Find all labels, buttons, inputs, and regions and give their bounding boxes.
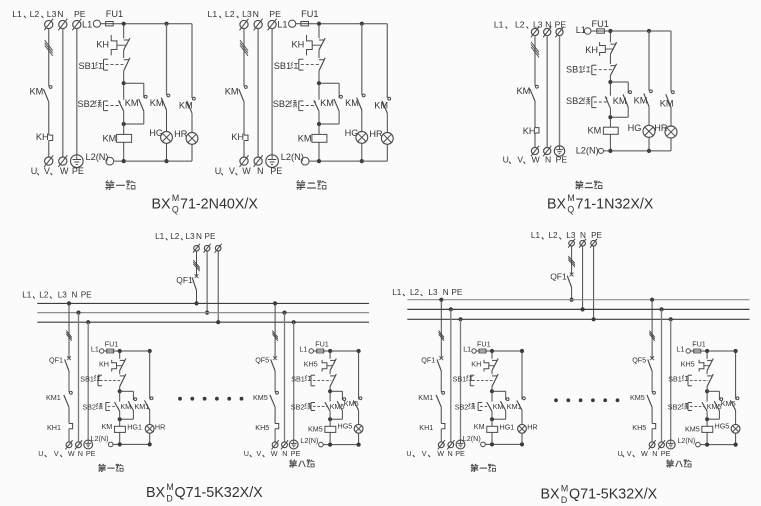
terminal L1L2L3 circuit 3 diagram BXQ71-1N32X/X [531,27,539,38]
svg-text:L1: L1 [155,232,165,241]
terminal UVW circuit 2 diagram BXQ71-2N40X/X [240,155,249,167]
svg-text:L1: L1 [531,231,541,240]
wire 3-phase circuit 3 diagram BXQ71-1N32X/X [531,36,539,86]
wire PE circuit 1 diagram BXQ71-2N40X/X [76,29,78,155]
wire control bottom circuit 1 diagram BXQ71-2N40X/X [114,159,192,163]
thermal relay element KH5 branch 8 bottom-right [632,423,655,432]
indicator lamp HG1 branch 1 bottom-right [500,410,538,444]
svg-text:L2(N): L2(N) [91,434,109,443]
contactor coil KM1 branch 1 bottom-left [102,419,126,444]
wire self-hold top branch 8 bottom-left [330,391,342,400]
wire N circuit 2 diagram BXQ71-2N40X/X [257,29,259,157]
wire branch 8 bottom-right KM to KH [651,407,653,423]
pushbutton SB2 green NO circuit 1 diagram BXQ71-2N40X/X [78,83,124,124]
svg-text:L2(N): L2(N) [677,436,695,445]
svg-text:BX: BX [146,485,166,501]
wire self-hold bottom branch 8 bottom-left [328,411,342,422]
wire 3-phase circuit 2 diagram BXQ71-2N40X/X [240,29,248,87]
svg-text:FU1: FU1 [692,340,706,349]
svg-text:HG5: HG5 [338,422,353,431]
svg-text:Q: Q [567,205,574,215]
terminal PE circuit 1 diagram BXQ71-2N40X/X [72,19,81,31]
thermal relay NC contact KH branch 1 bottom-left [99,351,126,371]
node labels L1 L2 L3 N PE bus left bottom-left diagram [22,290,92,299]
indicator lamp HR circuit 3 diagram BXQ71-1N32X/X [654,108,677,151]
wire control top branch 8 bottom-right [700,349,737,399]
label di-yi-lu 第一路 branch 1 bottom-right [471,464,496,472]
wire N drop branch 8 bottom-right [659,307,663,442]
wire circuit 1 diagram BXQ71-2N40X/X KH to UVW terminal [48,141,50,158]
wire control top circuit 3 diagram BXQ71-1N32X/X [604,29,671,33]
svg-text:L2(N): L2(N) [281,152,304,162]
svg-text:M: M [561,483,568,493]
svg-text:PE: PE [72,166,84,176]
svg-text:V: V [54,449,59,458]
svg-text:W: W [271,449,278,458]
svg-text:SB2: SB2 [273,99,290,109]
wire circuit 1 diagram BXQ71-2N40X/X KM to KH [48,102,50,135]
wire 3-phase feeder drop bottom-left diagram [193,251,200,276]
wire branch 8 bottom-left SB1 to junction [328,387,332,394]
svg-text:SB1: SB1 [80,374,94,383]
label model BXQ71-2N40X/X [152,193,259,215]
svg-text:PE: PE [205,232,216,241]
wire control bottom circuit 3 diagram BXQ71-1N32X/X [604,149,672,153]
svg-text:KH: KH [96,40,109,50]
svg-text:SB1: SB1 [668,374,682,383]
svg-text:L3: L3 [428,288,438,297]
terminal L1L2L3 feeder bottom-right diagram [568,239,575,248]
svg-text:L2: L2 [170,232,180,241]
terminal PE earth circuit 3 diagram BXQ71-1N32X/X [554,146,564,156]
fuse FU1 circuit 3 diagram BXQ71-1N32X/X [591,19,609,33]
svg-text:BX: BX [541,487,561,503]
circuit breaker QF5 branch 8 bottom-left [255,355,277,371]
svg-text:L2: L2 [410,288,420,297]
svg-text:N: N [78,449,83,458]
wire control top circuit 2 diagram BXQ71-2N40X/X [309,22,388,26]
svg-text:KM: KM [588,126,602,136]
svg-text:QF5: QF5 [255,355,269,364]
svg-text:L2: L2 [39,290,49,299]
auxiliary contact KM lamp HG branch circuit 1 diagram BXQ71-2N40X/X [150,24,170,110]
svg-text:PE: PE [556,155,568,165]
wire PE drop branch 8 bottom-left [292,320,296,440]
svg-text:U: U [406,449,411,458]
svg-text:L1: L1 [392,288,402,297]
auxiliary contact KM self-hold circuit 2 diagram BXQ71-2N40X/X [320,95,342,111]
wire control bottom branch 1 bottom-left [113,442,152,446]
wire branch 1 bottom-left KH to UVW terminal [68,429,70,442]
auxiliary contact KM1 lamp branch branch 1 bottom-right [507,397,526,411]
wire self-hold branch top circuit 1 diagram BXQ71-2N40X/X [124,83,144,98]
svg-text:FU1: FU1 [592,19,609,29]
svg-text:D: D [166,493,172,503]
ellipsis dots bottom-right diagram [554,398,619,402]
svg-text:SB1: SB1 [274,61,291,71]
terminal PE feeder bottom-right diagram [590,239,597,248]
terminal L1 control circuit 2 diagram BXQ71-2N40X/X [277,20,296,30]
indicator lamp HG5 branch 8 bottom-left [338,410,364,444]
svg-text:N: N [282,449,287,458]
svg-text:PE: PE [455,449,465,458]
svg-text:KM5: KM5 [253,393,268,402]
pushbutton SB1 red NC branch 1 bottom-left [80,371,126,387]
indicator lamp HG circuit 2 diagram BXQ71-2N40X/X [345,110,368,163]
bus bar PE bottom-left diagram [37,321,369,323]
label di-yi-lu 第一路 circuit 1 diagram BXQ71-2N40X/X [105,180,135,189]
svg-text:PE: PE [555,19,567,29]
terminal PE feeder bottom-left diagram [215,244,222,253]
thermal relay NC contact KH5 branch 8 bottom-left [304,351,337,371]
wire PE drop branch 8 bottom-right [669,317,673,440]
ellipsis dots bottom-left diagram [178,397,243,401]
svg-text:KM5: KM5 [685,425,700,434]
wire control top branch 1 bottom-left [113,349,151,399]
label di-er-lu 第二路 circuit 3 diagram BXQ71-1N32X/X [575,181,602,189]
thermal relay NC contact KH5 branch 8 bottom-right [681,351,714,371]
svg-text:KM: KM [225,87,239,97]
svg-text:L3: L3 [185,232,195,241]
auxiliary contact KM1 lamp branch branch 1 bottom-left [135,397,154,411]
terminal L1 control branch 1 bottom-left [91,345,104,354]
svg-text:QF1: QF1 [550,271,567,281]
contactor main contact KM5 branch 8 bottom-right [630,391,655,407]
node labels U V W PE bottom circuit 2 diagram BXQ71-2N40X/X [215,166,283,176]
auxiliary contact KM5 lamp branch branch 8 bottom-right [721,397,739,410]
svg-text:W: W [641,449,648,458]
svg-text:U: U [31,166,38,176]
circuit breaker QF1 feeder bottom-left diagram [176,274,198,290]
thermal relay element KH1 branch 1 bottom-left [47,423,73,432]
terminal N branch 8 bottom-left [281,440,288,449]
terminal UVW circuit 1 diagram BXQ71-2N40X/X [44,155,53,167]
wire branch 1 bottom-right QF to KM [440,371,442,392]
svg-text:PE: PE [270,166,282,176]
wire circuit 3 diagram BXQ71-1N32X/X KM to KH [534,101,536,128]
bus bar N bottom-right diagram [407,308,749,310]
svg-text:N: N [448,449,453,458]
fuse FU1 branch 1 bottom-right [476,340,490,353]
svg-text:L1: L1 [12,9,22,19]
wire circuit 2 diagram BXQ71-2N40X/X KM to KH [243,102,245,135]
node labels U V W PE bottom circuit 1 diagram BXQ71-2N40X/X [31,166,84,176]
wire self-hold bottom branch 8 bottom-right [705,411,719,422]
contactor coil KM5 branch 8 bottom-left [308,419,336,444]
indicator lamp HG1 branch 1 bottom-left [127,410,165,444]
terminal PE earth branch 1 bottom-right [456,440,465,449]
svg-text:L2: L2 [225,9,235,19]
bus bar L1L2L3 bottom-right diagram [407,299,749,301]
wire PE circuit 2 diagram BXQ71-2N40X/X [271,29,273,155]
contactor coil KM5 branch 8 bottom-right [685,419,713,444]
wire branch 1 bottom-right SB1 to junction [490,387,494,394]
svg-text:N: N [196,232,202,241]
svg-text:KH: KH [523,126,536,136]
wire branch 1 bottom-left SB1 to junction [118,387,122,394]
svg-text:N: N [253,9,259,19]
terminal L1L2L3 circuit 2 diagram BXQ71-2N40X/X [240,19,249,31]
svg-text:KH: KH [99,360,109,369]
terminal PE earth circuit 1 diagram BXQ71-2N40X/X [71,155,84,168]
thermal relay NC contact KH circuit 1 diagram BXQ71-2N40X/X [96,24,130,56]
wire circuit 3 diagram BXQ71-1N32X/X SB1 to junction [608,75,612,84]
wire control top branch 1 bottom-right [486,349,525,399]
node labels L1 L2 L3 N PE bus left bottom-right diagram [392,288,463,297]
svg-text:SB2: SB2 [455,402,469,411]
terminal UVW branch 1 bottom-right [438,440,445,449]
wire 3-phase circuit 1 diagram BXQ71-2N40X/X [45,29,53,87]
wire branch 8 bottom-right SB1 to junction [705,387,709,394]
svg-text:W: W [437,449,444,458]
svg-text:V: V [517,155,523,165]
wire self-hold top branch 1 bottom-left [120,391,134,400]
terminal L1 control branch 1 bottom-right [463,345,476,354]
fuse FU1 circuit 1 diagram BXQ71-2N40X/X [101,9,124,26]
svg-text:QF1: QF1 [421,355,435,364]
pushbutton SB1 red NC circuit 3 diagram BXQ71-1N32X/X [566,54,617,75]
svg-text:KM1: KM1 [46,393,61,402]
wire control top branch 8 bottom-left [323,349,360,399]
circuit breaker QF1 branch 1 bottom-left [49,355,71,371]
svg-text:SB2: SB2 [291,402,305,411]
svg-text:U: U [618,449,623,458]
svg-text:SB2: SB2 [82,402,96,411]
node labels L1 L2 L3 N PE top circuit 1 diagram BXQ71-2N40X/X [12,9,86,19]
wire circuit 2 diagram BXQ71-2N40X/X KH to UVW terminal [243,141,245,158]
svg-text:SB2: SB2 [78,99,95,109]
node labels U V W N PE branch 8 bottom-left [244,449,301,458]
svg-text:PE: PE [291,449,301,458]
indicator lamp HR circuit 2 diagram BXQ71-2N40X/X [369,113,393,161]
svg-text:KH5: KH5 [632,423,646,432]
wire branch 1 bottom-left QF to KM [68,371,70,392]
svg-text:U: U [215,166,222,176]
label model BXDQ71-5K32X/X right [541,483,658,505]
svg-text:PE: PE [74,9,86,19]
svg-text:L2(N): L2(N) [463,434,481,443]
node labels L1 L2 L3 N PE top circuit 3 diagram BXQ71-1N32X/X [494,19,566,29]
svg-text:71-2N40X/X: 71-2N40X/X [180,196,258,212]
svg-text:HG5: HG5 [715,422,730,431]
wire branch 8 bottom-left KH to UVW terminal [274,429,276,442]
svg-text:N: N [57,9,63,19]
svg-text:KH1: KH1 [419,423,433,432]
terminal N branch 1 bottom-left [75,440,82,449]
wire N drop branch 1 bottom-right [449,307,453,442]
svg-text:V: V [627,449,632,458]
svg-text:V: V [422,449,427,458]
svg-text:SB1: SB1 [79,61,96,71]
svg-text:PE: PE [451,288,462,297]
wire self-hold bottom branch 1 bottom-left [118,411,134,422]
indicator lamp HG circuit 3 diagram BXQ71-1N32X/X [628,107,655,153]
thermal relay element KH5 branch 8 bottom-left [255,423,278,432]
svg-text:SB1: SB1 [453,374,467,383]
wire self-hold bottom branch 1 bottom-right [490,411,506,422]
svg-text:KM: KM [103,134,117,144]
terminal L1L2L3 circuit 1 diagram BXQ71-2N40X/X [44,19,53,31]
node labels U V W N PE branch 1 bottom-left [38,449,95,458]
auxiliary contact KM self-hold circuit 3 diagram BXQ71-1N32X/X [613,91,632,107]
svg-text:W: W [68,449,75,458]
thermal relay NC contact KH branch 1 bottom-right [471,351,498,371]
wire self-hold top branch 8 bottom-right [707,391,719,400]
pushbutton SB2 green NO circuit 3 diagram BXQ71-1N32X/X [566,82,610,117]
terminal L2(N) circuit 3 diagram BXQ71-1N32X/X [576,146,604,156]
svg-text:M: M [567,193,574,203]
svg-text:U: U [38,449,43,458]
svg-text:PE: PE [269,9,281,19]
pushbutton SB1 red NC circuit 1 diagram BXQ71-2N40X/X [79,50,130,71]
terminal UVW branch 1 bottom-left [65,440,72,449]
contactor coil KM circuit 1 diagram BXQ71-2N40X/X [103,124,132,161]
svg-text:N: N [652,449,657,458]
fuse FU1 circuit 2 diagram BXQ71-2N40X/X [296,9,319,26]
wire 3-phase drop branch 1 bottom-right [439,298,444,358]
wire branch 8 bottom-right KH to UVW terminal [651,429,653,442]
terminal N feeder bottom-left diagram [204,244,211,253]
svg-text:SB2: SB2 [566,96,583,106]
terminal N branch 1 bottom-right [447,440,454,449]
svg-text:L1: L1 [676,345,684,354]
terminal PE circuit 2 diagram BXQ71-2N40X/X [268,19,277,31]
svg-text:N: N [257,166,264,176]
svg-text:KH5: KH5 [681,360,695,369]
svg-text:FU1: FU1 [301,9,318,19]
svg-text:PE: PE [86,449,96,458]
wire feeder to bus bottom-right diagram [570,246,596,321]
terminal N circuit 3 diagram BXQ71-1N32X/X [543,27,551,38]
wire branch 8 bottom-left QF to KM [274,371,276,392]
fuse FU1 branch 8 bottom-left [313,340,328,353]
wire PE circuit 3 diagram BXQ71-1N32X/X [559,36,561,146]
bus bar N bottom-left diagram [37,312,369,314]
svg-text:V: V [229,166,235,176]
wire 3-phase drop branch 8 bottom-right [649,298,654,358]
terminal L1L2L3 feeder bottom-left diagram [193,244,200,253]
pushbutton SB2 green NO branch 1 bottom-right [455,391,492,419]
svg-text:HG1: HG1 [500,423,515,432]
svg-text:HG: HG [628,123,642,133]
svg-text:U: U [244,449,249,458]
auxiliary contact KM5 self-hold branch 8 bottom-right [707,398,723,412]
svg-text:Q71-5K32X/X: Q71-5K32X/X [569,487,658,503]
terminal L2(N) circuit 1 diagram BXQ71-2N40X/X [86,152,114,165]
svg-text:W: W [60,166,69,176]
svg-text:L3: L3 [47,9,57,19]
svg-text:FU1: FU1 [477,340,491,349]
wire feeder to bus bottom-left diagram [194,251,220,324]
svg-text:D: D [561,495,567,505]
wire branch 1 bottom-right KH to UVW terminal [440,429,442,442]
terminal L1 control circuit 3 diagram BXQ71-1N32X/X [576,25,591,35]
wire control bottom branch 1 bottom-right [485,442,524,446]
svg-text:N: N [443,288,449,297]
svg-text:KM: KM [320,98,334,108]
wire N drop branch 8 bottom-left [282,311,286,442]
wire control bottom branch 8 bottom-right [700,443,738,447]
circuit breaker QF1 branch 1 bottom-right [421,355,443,371]
contactor main contact KM circuit 2 diagram BXQ71-2N40X/X [225,86,248,102]
node labels U V W N PE branch 8 bottom-right [618,449,671,458]
svg-text:L2(N): L2(N) [576,146,599,156]
thermal relay element KH1 branch 1 bottom-right [419,423,445,432]
wire circuit 1 diagram BXQ71-2N40X/X SB1 to junction [122,71,126,85]
wire branch 1 bottom-right KM to KH [440,407,442,423]
pushbutton SB2 green NO branch 8 bottom-right [668,391,707,419]
auxiliary contact KM self-hold branch 1 bottom-right [493,398,509,412]
wire N drop branch 1 bottom-left [76,311,80,442]
svg-text:HR: HR [155,423,165,432]
wire self-hold branch bottom circuit 1 diagram BXQ71-2N40X/X [122,111,144,126]
wire control top circuit 1 diagram BXQ71-2N40X/X [113,22,192,26]
contactor coil KM circuit 3 diagram BXQ71-1N32X/X [588,117,619,151]
svg-text:KM: KM [474,422,485,431]
label model BXQ71-1N32X/X [547,193,654,215]
terminal PE circuit 3 diagram BXQ71-1N32X/X [555,27,563,38]
svg-text:FU1: FU1 [105,340,119,349]
svg-text:N: N [72,290,78,299]
svg-text:SB1: SB1 [291,374,305,383]
terminal PE earth branch 1 bottom-left [84,440,93,449]
label di-ba-lu 第八路 branch 8 bottom-left [289,460,314,468]
auxiliary contact KM5 lamp branch branch 8 bottom-left [344,397,362,410]
svg-text:FU1: FU1 [106,9,123,19]
wire branch 8 bottom-left KM to KH [274,407,276,423]
svg-text:N: N [580,231,586,240]
svg-text:L1: L1 [91,345,99,354]
svg-text:PE: PE [661,449,671,458]
svg-text:KH1: KH1 [47,423,61,432]
terminal N bottom circuit 2 diagram BXQ71-2N40X/X [254,155,263,167]
svg-text:KM1: KM1 [418,393,433,402]
contactor main contact KM5 branch 8 bottom-left [253,391,278,407]
terminal L1 control circuit 1 diagram BXQ71-2N40X/X [82,20,101,30]
contactor main contact KM circuit 1 diagram BXQ71-2N40X/X [30,86,52,102]
terminal L2(N) branch 1 bottom-left [91,434,113,447]
svg-text:KH5: KH5 [304,360,318,369]
wire self-hold top branch 1 bottom-right [492,391,506,400]
svg-text:L2(N): L2(N) [86,152,109,162]
terminal N circuit 1 diagram BXQ71-2N40X/X [58,19,67,31]
svg-text:L3: L3 [242,9,252,19]
auxiliary contact KM lamp HR branch circuit 3 diagram BXQ71-1N32X/X [660,31,675,109]
wire 3-phase drop branch 8 bottom-left [272,301,277,357]
svg-text:KH: KH [231,132,244,142]
indicator lamp HG circuit 1 diagram BXQ71-2N40X/X [149,110,172,163]
indicator lamp HR circuit 1 diagram BXQ71-2N40X/X [174,113,198,161]
pushbutton SB1 red NC branch 8 bottom-left [291,371,336,387]
auxiliary contact KM lamp HG branch circuit 3 diagram BXQ71-1N32X/X [634,31,653,107]
wire circuit 2 diagram BXQ71-2N40X/X SB1 to junction [317,71,321,85]
wire PE drop branch 1 bottom-left [86,320,90,440]
terminal UVW branch 8 bottom-left [272,440,279,449]
circuit breaker QF1 feeder bottom-right diagram [550,271,573,287]
bus bar PE bottom-right diagram [407,318,749,320]
svg-text:KH: KH [585,45,598,55]
terminal N bottom circuit 3 diagram BXQ71-1N32X/X [543,146,551,157]
terminal L1 control branch 8 bottom-right [676,345,690,354]
svg-text:71-1N32X/X: 71-1N32X/X [576,196,654,212]
pushbutton SB1 red NC branch 1 bottom-right [453,371,499,387]
wire self-hold branch bottom circuit 3 diagram BXQ71-1N32X/X [608,107,628,119]
svg-text:L1: L1 [494,19,504,29]
terminal N branch 8 bottom-right [658,440,665,449]
svg-text:V: V [44,166,50,176]
svg-text:L1: L1 [463,345,471,354]
terminal PE earth branch 8 bottom-right [666,440,675,449]
